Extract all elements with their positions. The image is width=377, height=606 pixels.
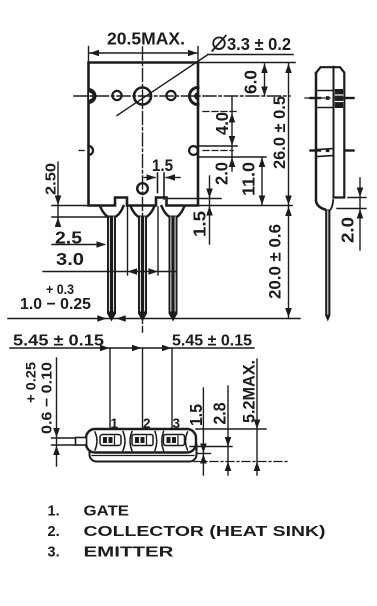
- svg-text:1.: 1.: [48, 504, 60, 520]
- svg-text:2.: 2.: [48, 524, 60, 540]
- svg-text:1.5: 1.5: [152, 157, 173, 175]
- svg-text:20.0 ± 0.6: 20.0 ± 0.6: [267, 224, 285, 299]
- svg-text:5.2MAX.: 5.2MAX.: [241, 360, 259, 423]
- svg-text:5.45 ± 0.15: 5.45 ± 0.15: [172, 333, 252, 350]
- svg-text:1.5: 1.5: [189, 211, 209, 237]
- svg-text:6.0: 6.0: [240, 70, 260, 94]
- svg-text:20.5MAX.: 20.5MAX.: [107, 29, 185, 49]
- svg-text:2.50: 2.50: [43, 163, 60, 195]
- svg-text:3: 3: [173, 416, 181, 431]
- svg-text:+ 0.25: + 0.25: [23, 362, 39, 403]
- svg-text:5.45 ± 0.15: 5.45 ± 0.15: [13, 333, 104, 350]
- svg-text:GATE: GATE: [84, 504, 130, 520]
- svg-text:0.6 − 0.10: 0.6 − 0.10: [39, 362, 56, 434]
- svg-text:1: 1: [111, 416, 119, 431]
- svg-text:1.5: 1.5: [186, 404, 206, 426]
- svg-text:EMITTER: EMITTER: [84, 545, 175, 561]
- svg-text:1.0 − 0.25: 1.0 − 0.25: [20, 296, 91, 313]
- svg-text:3.0: 3.0: [56, 249, 84, 269]
- svg-text:2.5: 2.5: [55, 228, 82, 248]
- svg-text:2.0: 2.0: [211, 162, 231, 185]
- svg-text:2.0: 2.0: [337, 217, 357, 243]
- svg-text:11.0: 11.0: [238, 162, 258, 196]
- svg-text:26.0 ± 0.5: 26.0 ± 0.5: [271, 96, 289, 169]
- svg-text:COLLECTOR (HEAT SINK): COLLECTOR (HEAT SINK): [84, 524, 326, 540]
- svg-text:4.0: 4.0: [212, 112, 232, 135]
- svg-text:3.: 3.: [48, 545, 60, 561]
- svg-text:3.3 ± 0.2: 3.3 ± 0.2: [227, 34, 291, 54]
- svg-text:2.8: 2.8: [209, 402, 229, 424]
- svg-text:+ 0.3: + 0.3: [46, 281, 74, 297]
- svg-text:2: 2: [143, 416, 151, 431]
